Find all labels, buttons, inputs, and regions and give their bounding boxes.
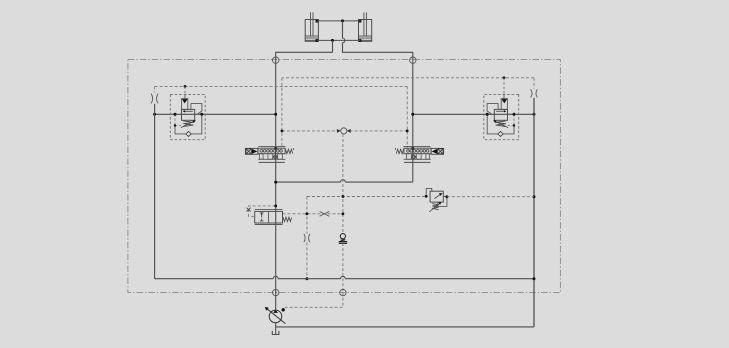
unloader sense line [283, 213, 343, 215]
LS to pump control [283, 293, 343, 310]
left rail upper dashed stub [154, 86, 156, 92]
X on unloader pilot [247, 208, 251, 212]
left service line at CB valve [155, 113, 276, 115]
pilot relief valve RV1 [425, 188, 448, 211]
node bleed to tank return [305, 277, 308, 280]
LS line from shuttle down [342, 134, 344, 234]
node right rail x LS drain [533, 195, 536, 198]
LS gallery line [307, 196, 426, 198]
counterbalance valve CB1 [170, 95, 205, 140]
wire: B-line from rod header (hops cap header) to port V2 [343, 21, 413, 60]
node dots on service lines [153, 113, 156, 116]
node on P2 drop [281, 130, 284, 133]
pilot line P2 (from right rail to left valve) [282, 78, 534, 148]
LS drain to right rail [447, 196, 534, 198]
unloader pilot dashed [249, 206, 276, 216]
bleed drop with orifice [306, 197, 308, 234]
LS line continues to port P3 [342, 243, 344, 293]
node unloader pilot tap [274, 205, 277, 208]
wire: B-line bottom run to A-line [276, 181, 413, 183]
left rail orifice [151, 94, 158, 104]
hop over LS drop [341, 276, 346, 278]
port LS circle [340, 289, 346, 295]
wire: cylinder cap-side header [317, 39, 360, 41]
wire hop: B-line bottom over LS line [341, 180, 346, 182]
unloader valve 2/2 [255, 210, 292, 225]
LS check: seat lines [339, 241, 347, 243]
port V1 circle [273, 57, 279, 63]
hop over A-line [273, 276, 278, 278]
pilot stub into CB2 [503, 78, 505, 95]
node unloader line end [342, 212, 345, 215]
shuttle valve [341, 128, 347, 134]
node: cap header junction [331, 39, 334, 42]
LS check: ball [340, 234, 345, 239]
right service line at CB valve [413, 113, 534, 115]
node: B-line at PV2 [411, 147, 414, 150]
right rail vertical [533, 98, 535, 327]
pump [265, 307, 286, 324]
wire: A-line main vertical [275, 60, 277, 310]
right rail upper dashed stub [533, 78, 535, 89]
proportional valve PV1 [245, 146, 293, 162]
tank [272, 331, 279, 335]
node: A-line at PV1 [274, 147, 277, 150]
right rail orifice [531, 89, 538, 97]
node tank return x right rail [533, 277, 536, 280]
drain/tank line to right rail [276, 326, 534, 328]
wire: A-line from cap header to port V1 [276, 40, 333, 60]
plug X on unloader line [320, 211, 330, 216]
manifold enclosure boundary [128, 60, 561, 293]
node: P2 taps CB2 pilot [503, 76, 506, 79]
node: rod header junction [341, 19, 344, 22]
node unloader line x bleed drop [306, 212, 309, 215]
node: B joins A [274, 181, 277, 184]
cylinder CYL1 [305, 12, 318, 41]
left rail vertical [154, 104, 156, 279]
proportional valve PV2 [395, 146, 443, 162]
bleed orifice [304, 234, 310, 242]
node LS gallery x shuttle drop [342, 195, 345, 198]
pilot line P1 (from left rail to right valve) [155, 86, 408, 147]
tank return line with hops [155, 278, 534, 280]
pump suction line [275, 323, 277, 335]
port V2 circle [410, 57, 416, 63]
shuttle sense line [282, 130, 407, 132]
cylinder CYL2 [359, 12, 372, 41]
node on P1 drop [406, 130, 409, 133]
wire: B-line main vertical [412, 60, 414, 182]
node: P1 taps CB1 pilot [184, 85, 187, 88]
counterbalance valve CB2 [484, 95, 519, 140]
wire: cylinder rod-side header [317, 20, 360, 22]
port P circle [273, 289, 279, 295]
pilot stub into CB1 [184, 86, 186, 94]
